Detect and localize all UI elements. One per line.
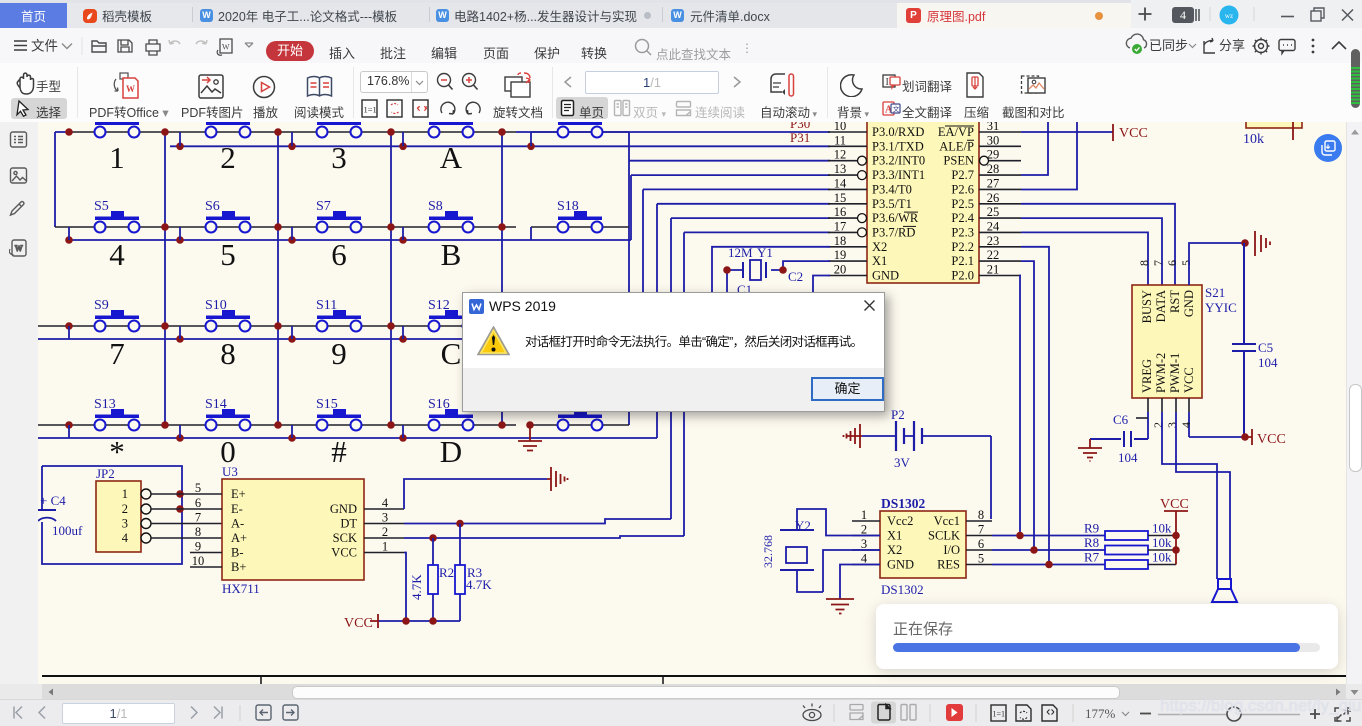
svg-text:P3.6/WR: P3.6/WR	[872, 211, 919, 225]
svg-text:6: 6	[331, 237, 347, 272]
PDF转Office	[110, 71, 142, 101]
hand icon	[17, 73, 33, 94]
播放	[252, 75, 276, 99]
row1 net to MCU pin10	[516, 131, 830, 133]
svg-text:P3.5/T1: P3.5/T1	[872, 197, 912, 211]
svg-text:DATA: DATA	[1154, 290, 1168, 322]
旋转文档	[502, 71, 534, 100]
svg-text:VCC: VCC	[331, 546, 357, 560]
svg-text:S9: S9	[94, 298, 109, 313]
S21 bottom pins	[1148, 398, 1189, 412]
svg-text:10k: 10k	[1152, 535, 1172, 550]
svg-text:10: 10	[192, 554, 205, 568]
svg-text:B: B	[441, 237, 462, 272]
svg-text:BUSY: BUSY	[1140, 290, 1154, 323]
svg-text:1: 1	[109, 140, 125, 175]
svg-text:ALE/P: ALE/P	[939, 139, 974, 153]
svg-text:14: 14	[834, 176, 847, 190]
svg-text:A-: A-	[231, 517, 244, 531]
svg-text:28: 28	[987, 162, 1000, 176]
svg-text:X2: X2	[887, 543, 902, 557]
svg-text:12: 12	[834, 148, 847, 162]
svg-text:4: 4	[122, 531, 129, 545]
DS1302 horizontals to resistors	[992, 536, 1105, 565]
svg-text:1=1: 1=1	[993, 710, 1006, 719]
svg-text:VCC: VCC	[1119, 126, 1148, 141]
svg-text:11: 11	[834, 133, 846, 147]
watermark	[1160, 696, 1361, 716]
截图和对比	[1020, 72, 1047, 98]
JP2 loop wires	[42, 466, 182, 564]
svg-text:S21: S21	[1205, 285, 1225, 300]
svg-text:8: 8	[1137, 260, 1151, 266]
svg-text:5: 5	[220, 237, 236, 272]
svg-text:3V: 3V	[894, 455, 911, 470]
svg-text:SCK: SCK	[333, 531, 357, 545]
wires P2.2 P2.1 P2.0 down to DS1302	[1020, 247, 1049, 563]
svg-text:32.768: 32.768	[761, 535, 775, 568]
svg-text:7: 7	[109, 336, 125, 371]
svg-text:P2.0: P2.0	[951, 269, 974, 283]
svg-text:1: 1	[382, 540, 388, 554]
svg-text:S6: S6	[205, 199, 220, 214]
svg-text:R7: R7	[1084, 550, 1100, 565]
svg-text:10k: 10k	[1152, 521, 1172, 536]
page frame bottom	[42, 675, 1348, 677]
JP2 pin wires	[151, 494, 222, 538]
print	[146, 40, 160, 55]
key row1 col5	[558, 122, 602, 126]
key row1 col4	[429, 122, 473, 126]
svg-text:8: 8	[220, 336, 236, 371]
svg-text:YYIC: YYIC	[1205, 300, 1237, 315]
svg-text:13: 13	[834, 162, 847, 176]
svg-text:P31: P31	[790, 130, 810, 145]
svg-text:4: 4	[382, 496, 389, 510]
svg-text:X2: X2	[872, 240, 887, 254]
svg-text:P3.4/T0: P3.4/T0	[872, 182, 912, 196]
wire left edge vertical	[55, 132, 69, 227]
svg-text:EA/VP: EA/VP	[938, 125, 974, 139]
svg-text:177%: 177%	[1085, 706, 1116, 721]
zoom box	[360, 71, 428, 93]
DT / SCK long wires	[404, 519, 684, 538]
VCC right of S21	[1189, 436, 1245, 438]
svg-text:VREG: VREG	[1140, 359, 1154, 393]
svg-text:2: 2	[382, 525, 388, 539]
svg-text:VCC: VCC	[1182, 367, 1196, 393]
svg-text:C2: C2	[788, 269, 803, 284]
svg-text:9: 9	[331, 336, 347, 371]
svg-text:VCC: VCC	[1257, 432, 1286, 447]
svg-text:2: 2	[220, 140, 236, 175]
resistor pack RP 10k	[1246, 108, 1302, 128]
U3 VCC down	[378, 553, 460, 622]
svg-text:DT: DT	[340, 517, 357, 531]
全文翻译	[882, 100, 901, 117]
svg-text:25: 25	[987, 205, 1000, 219]
MCU overlines	[903, 126, 974, 226]
svg-text:P3.0/RXD: P3.0/RXD	[872, 125, 924, 139]
svg-text:A: A	[440, 140, 463, 175]
svg-text:P2.5: P2.5	[951, 197, 974, 211]
svg-text:X1: X1	[887, 529, 902, 543]
R2 R3	[433, 524, 460, 622]
svg-text:6: 6	[195, 496, 201, 510]
S21 YYIC module	[1132, 285, 1202, 398]
svg-text:24: 24	[987, 219, 1000, 233]
svg-text:P2: P2	[891, 407, 905, 422]
svg-text:GND: GND	[872, 269, 899, 283]
speaker LS1	[1212, 579, 1237, 602]
svg-text:JP2: JP2	[96, 466, 115, 481]
ground (keypad row4)	[518, 425, 542, 451]
svg-text:26: 26	[987, 191, 1000, 205]
svg-text:7: 7	[195, 511, 201, 525]
svg-text:104: 104	[1118, 450, 1138, 465]
svg-text:6: 6	[1165, 260, 1179, 266]
svg-text:10k: 10k	[1152, 550, 1172, 565]
svg-text:*: *	[109, 434, 125, 469]
svg-text:GND: GND	[1182, 290, 1196, 317]
svg-text:3: 3	[331, 140, 347, 175]
svg-text:1: 1	[861, 508, 867, 522]
VCC at pin31	[1021, 131, 1113, 133]
key row1 col2	[206, 122, 250, 126]
keypad row buses	[38, 132, 830, 438]
svg-text:3: 3	[122, 517, 128, 531]
svg-text:RES: RES	[937, 558, 960, 572]
svg-text:R8: R8	[1084, 535, 1099, 550]
svg-text:S5: S5	[94, 199, 109, 214]
pin inversion circles	[858, 156, 989, 237]
svg-text:GND: GND	[330, 502, 357, 516]
svg-text:W: W	[222, 43, 230, 52]
C5	[1232, 243, 1256, 437]
单页 chip	[556, 97, 608, 119]
key row1 col1	[95, 122, 139, 126]
svg-text:20: 20	[834, 263, 847, 277]
svg-text:2: 2	[861, 523, 867, 537]
svg-text:4.7K: 4.7K	[466, 577, 492, 592]
key row1 col3	[317, 122, 361, 126]
svg-text:D: D	[440, 434, 462, 469]
wires P2.7 P2.6 up	[1021, 122, 1077, 190]
wires P2.5 P2.4 P2.3 to S21	[1021, 204, 1175, 285]
eye	[803, 704, 821, 721]
自动滚动	[769, 72, 799, 98]
压缩	[965, 71, 985, 99]
svg-text:+ C4: + C4	[40, 493, 66, 508]
svg-text:HX711: HX711	[222, 581, 260, 596]
svg-text:P3.2/INT0: P3.2/INT0	[872, 154, 925, 168]
PDF转图片	[197, 73, 225, 100]
S21 pin5 to ground	[1189, 243, 1245, 285]
svg-text:4.7K: 4.7K	[409, 574, 424, 600]
svg-text:I/O: I/O	[943, 543, 960, 557]
blue floating button	[1314, 134, 1342, 162]
svg-text:A+: A+	[231, 531, 247, 545]
svg-text:U3: U3	[222, 464, 238, 479]
svg-text:GND: GND	[887, 558, 914, 572]
svg-text:100uf: 100uf	[52, 523, 83, 538]
svg-text:4: 4	[1179, 422, 1193, 428]
svg-text:6: 6	[978, 537, 984, 551]
keypad pin lines	[38, 132, 629, 425]
svg-text:4: 4	[109, 237, 125, 272]
svg-text:10k: 10k	[1243, 132, 1264, 147]
warning icon	[477, 326, 510, 356]
svg-text:4: 4	[1180, 8, 1186, 22]
svg-text:P2.7: P2.7	[951, 168, 974, 182]
undo/redo grayed	[169, 40, 180, 44]
svg-text:Vcc2: Vcc2	[887, 514, 913, 528]
svg-text:5: 5	[978, 552, 984, 566]
svg-text:R2: R2	[439, 565, 454, 580]
svg-text:wz: wz	[1225, 12, 1233, 20]
svg-text:17: 17	[834, 219, 847, 233]
right controls	[1131, 0, 1362, 28]
svg-text:VCC: VCC	[1160, 497, 1189, 512]
svg-text:16: 16	[834, 205, 847, 219]
R9 R8 R7	[1105, 531, 1148, 540]
svg-text:PWM-1: PWM-1	[1168, 353, 1182, 393]
svg-text:30: 30	[987, 133, 1000, 147]
svg-text:1=1: 1=1	[364, 105, 377, 115]
svg-text:P2.3: P2.3	[951, 225, 974, 239]
svg-text:Vcc1: Vcc1	[934, 514, 960, 528]
svg-text:#: #	[331, 434, 347, 469]
svg-text:P2.6: P2.6	[951, 182, 974, 196]
svg-text:3: 3	[861, 537, 867, 551]
DS1302 GND pin4 to ground	[840, 565, 880, 600]
svg-text:4: 4	[861, 552, 868, 566]
svg-text:7: 7	[978, 523, 984, 537]
svg-text:S7: S7	[316, 199, 331, 214]
U3 GND to ground	[404, 479, 547, 509]
keypad column nets	[165, 132, 629, 425]
svg-text:22: 22	[987, 248, 1000, 262]
junction dots keypad	[65, 128, 535, 442]
svg-text:5: 5	[1179, 260, 1193, 266]
svg-text:8: 8	[195, 525, 201, 539]
battery indicator top right	[1351, 49, 1360, 108]
svg-text:5: 5	[195, 481, 201, 495]
svg-text:18: 18	[834, 234, 847, 248]
svg-text:23: 23	[987, 234, 1000, 248]
stair wires to MCU P3 pins	[629, 161, 830, 536]
svg-text:分享: 分享	[1219, 38, 1245, 53]
svg-text:104: 104	[1258, 355, 1278, 370]
speaker wires	[1162, 412, 1230, 579]
svg-text:P2.1: P2.1	[951, 254, 974, 268]
svg-text:C: C	[441, 336, 462, 371]
SCHEMATIC SVG placeholder	[38, 122, 1346, 684]
svg-text:P2.4: P2.4	[951, 211, 974, 225]
划词翻译	[882, 74, 901, 91]
svg-text:E+: E+	[231, 487, 246, 501]
svg-text:C5: C5	[1258, 340, 1273, 355]
svg-text:VCC: VCC	[344, 616, 373, 631]
GND pin20 wire	[813, 276, 830, 293]
wire drops to buses	[69, 132, 531, 438]
VCC label bottom	[370, 614, 378, 628]
W export icon	[220, 39, 232, 53]
svg-text:1: 1	[122, 487, 128, 501]
阅读模式	[305, 75, 334, 99]
svg-text:PSEN: PSEN	[943, 154, 974, 168]
svg-text:W: W	[15, 244, 23, 253]
svg-text:I: I	[886, 77, 889, 88]
svg-text:21: 21	[987, 263, 1000, 277]
right side	[1120, 28, 1362, 63]
svg-text:文件: 文件	[31, 39, 58, 54]
svg-text:DS1302: DS1302	[881, 582, 924, 597]
svg-text:已同步: 已同步	[1149, 38, 1188, 53]
svg-text:E-: E-	[231, 502, 243, 516]
MCU U1 8051	[867, 112, 979, 283]
svg-text:P3.1/TXD: P3.1/TXD	[872, 139, 924, 153]
svg-text:19: 19	[834, 248, 847, 262]
背景 moon	[840, 73, 863, 97]
svg-text:15: 15	[834, 191, 847, 205]
svg-text:8: 8	[978, 508, 984, 522]
svg-text:3: 3	[382, 511, 388, 525]
svg-text:PWM-2: PWM-2	[1154, 353, 1168, 393]
VCC for resistors	[1164, 511, 1188, 565]
svg-text:2: 2	[122, 502, 128, 516]
svg-text:DS1302: DS1302	[881, 496, 926, 511]
S21 top pin numbers	[1137, 260, 1193, 266]
svg-text:RST: RST	[1168, 290, 1182, 313]
svg-text:B-: B-	[231, 546, 244, 560]
svg-text:B+: B+	[231, 560, 246, 574]
svg-text:27: 27	[987, 176, 1000, 190]
save	[118, 40, 132, 52]
svg-text:C6: C6	[1113, 412, 1129, 427]
svg-text:P2.2: P2.2	[951, 240, 974, 254]
svg-text:9: 9	[195, 540, 201, 554]
svg-text:S8: S8	[428, 199, 443, 214]
svg-text:7: 7	[1151, 260, 1165, 266]
svg-text:SCLK: SCLK	[928, 529, 960, 543]
svg-text:X1: X1	[872, 254, 887, 268]
small icons bottom row	[360, 99, 485, 119]
svg-text:文: 文	[893, 105, 900, 114]
svg-text:R9: R9	[1084, 521, 1099, 536]
folder open	[92, 41, 106, 52]
svg-text:W: W	[126, 84, 135, 94]
MCU pin stubs	[828, 132, 1021, 276]
svg-text:P3.3/INT1: P3.3/INT1	[872, 168, 925, 182]
svg-text:P3.7/RD: P3.7/RD	[872, 225, 915, 239]
